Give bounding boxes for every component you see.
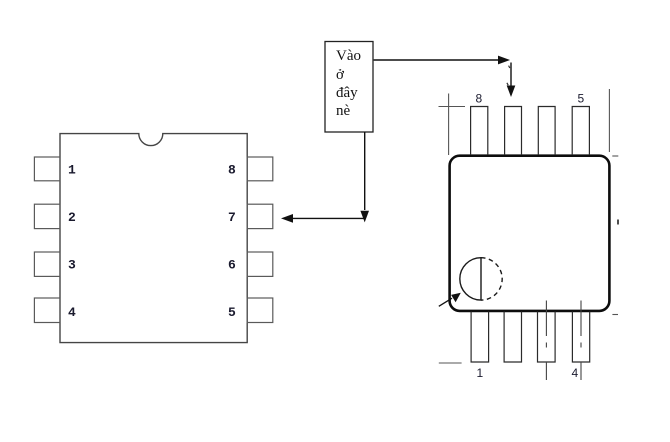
dimension line: left vertical above body: [448, 94, 450, 156]
DIP pin 4: [34, 298, 60, 323]
wire: short arrow pointing down at SOIC top pin 7: [510, 63, 512, 89]
DIP-8 package U1 body with pin-1 notch: [60, 134, 247, 343]
DIP pin 7: [247, 204, 273, 228]
pin-1 index circle: solid left half: [460, 258, 481, 300]
svg-text:6: 6: [228, 258, 236, 273]
svg-text:ở: ở: [336, 67, 345, 83]
svg-text:2: 2: [68, 210, 76, 225]
dimension line: right vertical above body: [608, 89, 610, 152]
DIP pin 3: [34, 252, 60, 276]
callout text box "Vao o day ne": [325, 42, 373, 133]
svg-text:1: 1: [68, 163, 76, 178]
DIP pin 6: [247, 252, 273, 276]
SOIC bottom pin 2: [504, 312, 521, 363]
dimension dash: right of top body corner: [612, 155, 618, 157]
svg-text:7: 7: [228, 210, 236, 225]
svg-text:3: 3: [68, 258, 76, 273]
pin-1 index circle: dashed right half: [481, 258, 502, 300]
SOIC top pin 6: [538, 107, 555, 156]
dimension line: bottom-left horizontal: [439, 362, 462, 364]
svg-text:đây: đây: [336, 85, 358, 101]
arrow pointing at index circle: [439, 298, 452, 306]
dimension dash: right of bottom body corner: [612, 314, 618, 316]
DIP pin 8: [247, 157, 273, 181]
SOIC bottom pin 4: [572, 312, 589, 363]
svg-text:4: 4: [572, 366, 579, 380]
centerline through SOIC bottom pin 4: [580, 301, 582, 381]
svg-text:nè: nè: [336, 103, 351, 119]
arrowhead pointing left at DIP pin 7: [281, 214, 293, 223]
SOIC top pin 7: [505, 107, 522, 156]
SOIC top pin 5: [572, 107, 589, 156]
svg-text:4: 4: [68, 305, 76, 320]
tick mark near down arrow (upper): [509, 66, 510, 68]
centerline through SOIC bottom pin 3: [545, 301, 547, 381]
dimension tick: top-left horizontal: [439, 106, 466, 108]
svg-text:8: 8: [476, 92, 483, 106]
arrowhead pointing down: [360, 211, 369, 223]
SOIC bottom pin 3: [538, 312, 556, 363]
svg-text:Vào: Vào: [336, 48, 361, 64]
SOIC top pin 8: [471, 107, 488, 156]
svg-text:1: 1: [477, 366, 484, 380]
svg-text:8: 8: [228, 163, 236, 178]
wire: horizontal line toward DIP pin 7: [290, 217, 365, 219]
DIP pin 1: [34, 157, 60, 181]
dimension tick: right mid-height small vertical dash: [617, 220, 619, 225]
wire: arrow from box to right toward SOIC top: [374, 59, 500, 61]
wire: vertical line from box bottom down: [364, 132, 366, 210]
svg-text:5: 5: [578, 92, 585, 106]
DIP pin 2: [34, 204, 60, 228]
tick mark near down arrow (lower): [507, 83, 508, 85]
SOIC bottom pin 1: [471, 312, 489, 363]
SOIC-8 package U2 body: [450, 156, 610, 311]
DIP pin 5: [247, 298, 273, 323]
svg-text:5: 5: [228, 305, 236, 320]
